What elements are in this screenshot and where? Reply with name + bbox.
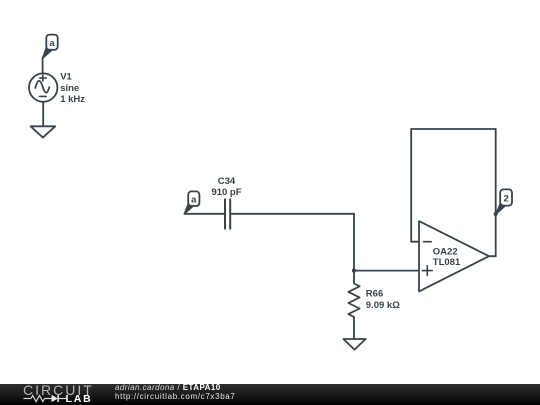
wire (feedback top) (411, 128, 496, 130)
label V1 sine 1 kHz (60, 72, 85, 106)
credit text (115, 384, 221, 393)
wire (42, 58, 44, 74)
wire (output) (489, 255, 496, 257)
capacitor C34 (225, 199, 230, 228)
wire (354, 270, 419, 272)
svg-text:OA22: OA22 (433, 246, 458, 257)
CircuitLab logo (0, 384, 110, 405)
svg-text:a: a (191, 195, 197, 206)
wire (231, 213, 354, 215)
url text (115, 392, 236, 401)
svg-text:2: 2 (503, 194, 508, 205)
wire (42, 102, 44, 127)
label R66 9.09 kOhm (366, 289, 400, 312)
wire (feedback right / output riser) (495, 129, 497, 256)
svg-text:910 pF: 910 pF (211, 187, 241, 198)
node a (C34 left flag) (184, 191, 199, 213)
svg-text:sine: sine (60, 83, 79, 94)
footer bar (0, 384, 540, 405)
wire (feedback left) (410, 129, 412, 242)
label C34 910 pF (211, 176, 241, 198)
resistor R66 (348, 271, 359, 339)
svg-text:C34: C34 (218, 176, 236, 187)
node a (V1 top terminal flag) (42, 35, 57, 59)
svg-text:1 kHz: 1 kHz (60, 94, 85, 105)
node junction (output tap) (494, 212, 498, 216)
wire (353, 214, 355, 271)
svg-text:a: a (49, 38, 55, 49)
svg-text:V1: V1 (60, 72, 72, 83)
wire (inverting input stub) (411, 241, 419, 243)
svg-text:9.09 kΩ: 9.09 kΩ (366, 300, 400, 311)
svg-text:LAB: LAB (66, 393, 93, 405)
node 2 (output flag) (496, 189, 512, 214)
svg-text:R66: R66 (366, 289, 383, 300)
voltage source V1 (29, 73, 57, 101)
ground (below R66) (343, 339, 365, 350)
wire (184, 213, 223, 215)
svg-text:TL081: TL081 (433, 257, 461, 268)
node junction (352, 269, 356, 273)
op-amp OA22 TL081 (419, 221, 489, 291)
ground (below V1) (31, 126, 56, 137)
